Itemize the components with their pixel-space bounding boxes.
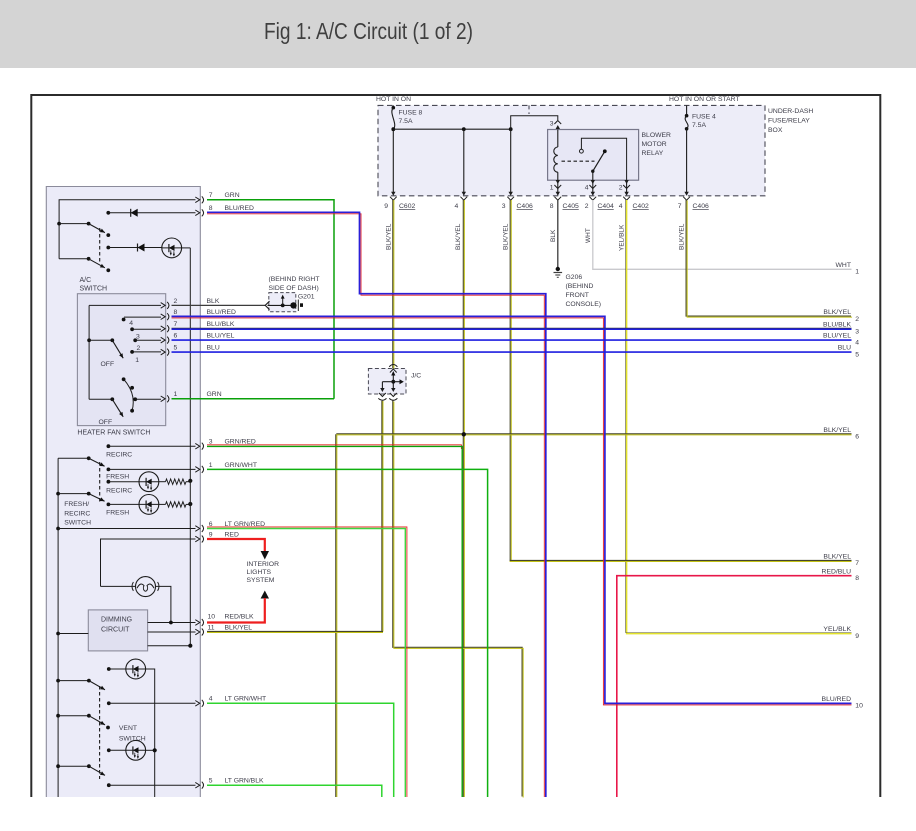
svg-text:7.5A: 7.5A [692,122,706,129]
relay pin 4 stub [592,180,594,192]
wire LED to bus [181,247,190,249]
exit 4 connector [195,700,203,707]
exit 1 connector [195,466,203,473]
wire branch bus from fuse 8 [393,128,510,130]
junction node fuse8 branch [391,127,395,131]
svg-text:FUSE 4: FUSE 4 [692,114,716,121]
wire BLK/YEL from C406 down [509,200,511,560]
left bus vertical [57,458,59,797]
wire branch down to connector 3 C406 [510,129,512,192]
svg-text:BOX: BOX [768,127,783,134]
svg-text:BLU: BLU [838,345,851,352]
svg-text:VENT: VENT [119,725,137,732]
svg-text:4: 4 [129,320,133,327]
wire BLK/YEL 7 from C406 column to right edge [510,559,852,561]
wire BLK/YEL exit11 to J/C branch [207,631,383,633]
wire GRN/WHT to bottom [207,469,488,797]
svg-text:7: 7 [209,192,213,199]
wire fuse4 down to connector 7 C406 [686,129,688,192]
svg-text:RECIRC: RECIRC [64,511,90,518]
A/C switch arm 2 [59,258,89,260]
header bar [0,0,916,68]
blower motor relay box [548,130,639,181]
heater deck1 contact 3 [130,327,134,331]
A/C contact column nodes [106,211,110,215]
svg-text:4: 4 [585,185,589,192]
svg-text:SIDE OF DASH): SIDE OF DASH) [269,285,319,292]
vent gang dashed link [99,686,101,779]
wire BLU pin5 to right edge 5 [172,351,852,353]
svg-text:BLU: BLU [207,345,220,352]
node resistor A to bus [188,479,192,483]
svg-text:SYSTEM: SYSTEM [247,577,275,584]
svg-text:OFF: OFF [99,419,113,426]
svg-text:3: 3 [550,121,554,128]
G201 right bracket [297,300,299,312]
A/C arm2 contact [106,268,110,272]
J/C output connectors [379,388,386,397]
exit 6 connector [195,525,203,532]
svg-text:3: 3 [855,329,859,336]
svg-text:3: 3 [502,203,506,210]
vent LED 2 [126,740,146,760]
dimming circuit box [88,610,147,651]
svg-text:CONSOLE): CONSOLE) [566,301,602,308]
vent LED 1 [126,659,146,679]
svg-text:1: 1 [209,462,213,469]
J/C inline connector arc above [389,365,397,367]
connector 8 C405 [554,192,561,201]
svg-text:BLU/BLK: BLU/BLK [207,321,235,328]
vent LED2 to bus [145,749,154,751]
wire RED from arrow to exit 10 row [207,598,265,623]
heater deck1 contact 1 [130,350,134,354]
svg-text:SWITCH: SWITCH [64,520,91,527]
relay NO contact circle [580,149,584,153]
node A/C left bus [57,222,61,226]
svg-text:6: 6 [855,434,859,441]
heater pin 2 exit [161,302,169,309]
exit 3 connector [195,443,203,450]
svg-text:2: 2 [137,345,141,352]
left control panel box [46,187,200,798]
svg-text:C404: C404 [598,203,614,210]
svg-text:11: 11 [208,624,215,631]
svg-text:BLK: BLK [550,229,557,242]
svg-text:BLU/YEL: BLU/YEL [207,333,235,340]
svg-text:GRN/WHT: GRN/WHT [225,462,257,469]
svg-text:WHT: WHT [836,262,851,269]
wire BLK pin2 to G201 [172,304,266,306]
wire branch up to relay pin 3 [511,116,558,130]
heater fan switch box [77,294,165,426]
svg-text:BLOWER: BLOWER [642,132,672,139]
svg-text:8: 8 [550,203,554,210]
bulb to wire10 branch [156,586,171,622]
svg-text:2: 2 [174,298,178,305]
left bus top corner [58,457,89,459]
svg-text:FUSE 8: FUSE 8 [399,110,423,117]
bus node on left bus at dimming [56,632,60,636]
recirc arm B [87,492,91,496]
wire WHT from C404 to right edge 1 [593,200,852,269]
exit 5 connector [195,782,203,789]
svg-text:4: 4 [855,339,859,346]
svg-text:RECIRC: RECIRC [106,452,132,459]
heater pin 5 exit [161,349,169,356]
svg-text:FRONT: FRONT [566,292,589,299]
fresh contact deck A wire [107,468,111,472]
vent contact 1 wire to exit 4 [107,701,111,705]
wire GRN/RED (green+red pair) to bottom [207,445,461,449]
svg-text:BLK/YEL: BLK/YEL [823,427,851,434]
svg-text:2: 2 [855,316,859,323]
wire BLK to ground G206 [557,200,559,268]
relay arm to pin 4 [592,171,594,180]
svg-text:BLK/YEL: BLK/YEL [385,223,392,250]
svg-text:C402: C402 [633,203,649,210]
J/C branch right arrow [393,381,399,383]
vent arm 3 [56,764,60,768]
svg-text:GRN: GRN [225,192,240,199]
svg-text:5: 5 [855,351,859,358]
heater wiper arm 2 [89,398,112,400]
wire BLK/YEL from C602 to J/C [392,200,394,369]
svg-text:RELAY: RELAY [642,150,664,157]
connector 9 C602 [390,192,397,201]
diode D2 [138,244,145,252]
svg-text:LT GRN/WHT: LT GRN/WHT [225,696,267,703]
fuse 8 feed wire [392,105,394,107]
svg-text:7.5A: 7.5A [399,118,413,125]
wire exit 9 internal [101,539,196,586]
wire to arm1 pivot [59,223,89,225]
svg-text:8: 8 [174,309,178,316]
wire RED to interior lights arrow [207,539,265,552]
heater deck1 contact 4 [122,318,126,322]
relay coil feed [557,130,559,148]
svg-text:9: 9 [384,203,388,210]
heater deck2 wire to pin1 [135,398,161,400]
svg-text:FRESH/: FRESH/ [64,501,89,508]
heater pin 6 exit [161,337,169,344]
relay pin 3 connector [554,121,561,130]
svg-text:BLK/YEL: BLK/YEL [503,223,510,250]
svg-text:1: 1 [855,269,859,276]
wire exit11 internal [148,631,196,633]
wire exit10 internal [148,622,196,624]
svg-text:7: 7 [174,321,178,328]
J/C input arrow [391,371,395,376]
wire LT GRN/WHT to bottom [207,703,394,797]
wire A/C LED feed with diode [108,247,162,249]
svg-text:GRN: GRN [207,391,222,398]
wire BLK/YEL J/C left output down to exit 11 row [381,401,383,632]
svg-text:DIMMING: DIMMING [101,617,132,624]
node dimming bus [188,644,192,648]
svg-text:10: 10 [855,703,863,710]
wire LT GRN/RED (green+red pair) to bottom [207,527,407,797]
svg-text:BLU/BLK: BLU/BLK [823,321,851,328]
wire A/C pin7 internal [59,200,195,259]
heater pin 8 exit [161,313,169,320]
arrow up from interior lights [261,591,269,599]
svg-text:1: 1 [550,185,554,192]
fresh contact deck B wire [107,503,111,507]
heater deck1 contact 2 [133,338,137,342]
svg-text:2: 2 [585,203,589,210]
relay contact wire to pin 2 [581,138,626,180]
connector 3 C406 [507,192,514,201]
svg-text:(BEHIND RIGHT: (BEHIND RIGHT [269,276,320,283]
recirc arm A [87,456,91,460]
svg-text:LT GRN/BLK: LT GRN/BLK [225,778,264,785]
svg-text:1: 1 [174,391,178,398]
wire BLU/RED heater pin8 (blue+red pair) [172,318,852,705]
heater deck2 contact arc [124,379,134,410]
svg-text:HOT IN ON: HOT IN ON [376,96,411,103]
wire BLK/YEL from connector 4 down to bottom [462,200,464,797]
svg-text:C406: C406 [517,203,533,210]
wire dimming to LED bus [148,645,191,647]
wire GRN pin1 joins pin7 riser [172,398,335,400]
svg-text:G201: G201 [298,294,315,301]
svg-text:8: 8 [855,575,859,582]
node bulb branch [169,621,173,625]
svg-text:SWITCH: SWITCH [80,286,108,293]
A/C pin 7 exit connector [195,196,203,203]
wire RED/BLU to right edge 8 [617,576,852,797]
heater internal left bus [88,305,90,399]
vent arm 1 [56,679,60,683]
fuse 4 feed wire [686,105,688,115]
svg-text:BLU/RED: BLU/RED [822,696,852,703]
relay arm node [591,170,594,173]
relay coil to pin 1 [557,172,559,180]
wire branch down to connector 4 [463,129,465,192]
svg-text:5: 5 [209,778,213,785]
relay pin 1 stub [557,180,559,192]
svg-text:10: 10 [208,613,216,620]
svg-text:BLU/YEL: BLU/YEL [823,333,851,340]
svg-text:FRESH: FRESH [106,474,129,481]
wire BLK/YEL 6 horizontal [336,433,851,435]
arrow down to interior lights [261,551,269,560]
svg-text:UNDER-DASH: UNDER-DASH [768,108,813,115]
G201 internal [268,304,294,306]
svg-text:LIGHTS: LIGHTS [247,569,272,576]
svg-text:(BEHIND: (BEHIND [566,283,594,290]
svg-text:BLK/YEL: BLK/YEL [225,624,253,631]
gang dashed link recirc [99,462,101,503]
LED A feed [107,480,111,484]
svg-text:CIRCUIT: CIRCUIT [101,627,130,634]
svg-text:HEATER FAN SWITCH: HEATER FAN SWITCH [77,430,150,437]
wire BLU/BLK pin7 to right edge 3 [172,327,852,329]
heater internal top wire pin2 [89,304,161,306]
svg-text:BLU/RED: BLU/RED [225,205,255,212]
diagram frame border [31,95,880,797]
junction node wire6 x463 [462,432,466,436]
illumination bulb [101,585,136,587]
svg-text:RECIRC: RECIRC [106,488,132,495]
wire GRN from A/C pin7 [207,200,334,399]
wire BLK/YEL J/C right output down then right then down to bottom [393,401,522,797]
svg-text:6: 6 [174,333,178,340]
resistor B [159,503,166,505]
svg-text:4: 4 [209,696,213,703]
wire BLK/YEL from C406 right to edge 2 [686,200,851,317]
relay coil [554,147,558,172]
heater pin 7 exit [161,325,169,332]
wire BLU/YEL pin6 to right edge 4 [172,339,852,341]
svg-text:Fig 1: A/C Circuit (1 of 2): Fig 1: A/C Circuit (1 of 2) [264,18,473,44]
fuse F4 [685,114,689,118]
svg-text:A/C: A/C [80,277,92,284]
svg-text:OFF: OFF [101,361,115,368]
heater wiper arm 1 [87,338,91,342]
svg-text:7: 7 [678,203,682,210]
svg-text:FRESH: FRESH [106,509,129,516]
wire BLK/YEL 6 vertical to bottom [335,434,337,797]
svg-text:BLK/YEL: BLK/YEL [823,309,851,316]
svg-text:MOTOR: MOTOR [642,141,667,148]
vent LED 1 feed [107,667,111,671]
node branch at x462 [462,127,466,131]
bus wire down from A/C LED [189,248,191,481]
exit 10 connector [195,619,203,626]
svg-text:RED/BLU: RED/BLU [822,568,852,575]
connector 2 C404 [589,192,596,201]
node resistor B to bus [188,502,192,506]
svg-text:BLK/YEL: BLK/YEL [823,554,851,561]
LED A [139,472,159,492]
under-dash fuse/relay box (dashed) [378,105,765,195]
svg-text:C602: C602 [399,203,415,210]
ground connector G201 box [269,293,296,312]
heater pin 1 exit [161,395,169,402]
J/C internal wires [392,376,394,390]
A/C gang dashed link [99,228,101,263]
divider dash in fuse box [528,105,530,114]
exit 9 connector [195,536,203,543]
svg-text:9: 9 [209,532,213,539]
svg-text:BLK/YEL: BLK/YEL [455,223,462,250]
svg-text:RED/BLK: RED/BLK [225,613,255,620]
diode D1 [131,209,138,217]
svg-text:C406: C406 [693,203,709,210]
svg-text:YEL/BLK: YEL/BLK [619,224,626,251]
connector 4 C402 [623,192,630,201]
svg-text:YEL/BLK: YEL/BLK [823,626,851,633]
svg-text:8: 8 [209,205,213,212]
vent contact 3 wire to exit 5 [107,783,111,787]
G201 entry chevron [265,301,269,309]
recirc deck B bus node [56,492,60,496]
connector 4 [460,192,467,201]
node branch at x510 [509,127,513,131]
exit 11 connector [195,629,203,636]
svg-text:7: 7 [855,560,859,567]
svg-text:J/C: J/C [411,373,421,380]
fuse F8 [392,106,396,110]
relay arm contact node [603,149,607,153]
recirc contact wire deck A [107,444,111,448]
svg-text:FUSE/RELAY: FUSE/RELAY [768,118,810,125]
relay pin 2 stub [626,180,628,192]
svg-text:BLU/RED: BLU/RED [207,309,237,316]
svg-text:G206: G206 [566,274,583,281]
LED B [139,495,159,515]
wire BLU/RED from A/C pin8 (blue+red pair) [207,214,544,797]
svg-text:5: 5 [174,345,178,352]
A/C switch arm 1 [87,222,91,226]
wire YEL/BLK from C402 down to right edge 9 [627,200,852,634]
wire fuse8 down to connector 9 C602 [392,129,394,192]
resistor A [159,481,166,483]
vent arm 2 [56,714,60,718]
svg-text:INTERIOR: INTERIOR [247,561,280,568]
vent arm2 contact [106,726,110,730]
A/C LED [162,238,182,258]
svg-text:RED: RED [225,532,239,539]
svg-text:4: 4 [455,203,459,210]
relay switch arm [593,151,605,171]
svg-text:HOT IN ON OR START: HOT IN ON OR START [669,96,740,103]
vent LED 2 feed [107,748,111,752]
svg-text:9: 9 [855,633,859,640]
relay dashed actuator link [562,160,595,162]
svg-text:1: 1 [135,357,139,364]
svg-text:BLK/YEL: BLK/YEL [679,223,686,250]
svg-text:C405: C405 [563,203,579,210]
svg-text:BLK: BLK [207,298,220,305]
A/C pin 8 exit connector [195,209,203,216]
connector 7 C406 [683,192,690,201]
ground G206 symbol [556,267,560,271]
junction connector J/C box [368,369,406,395]
bus wire between resistors down to dimming [189,481,191,646]
vent LED bus [145,669,154,797]
svg-text:2: 2 [619,185,623,192]
wire A/C pin8 internal with diode [108,212,195,214]
svg-text:4: 4 [619,203,623,210]
wire exit 6 internal [56,527,60,531]
wire LT GRN/BLK to bottom [207,785,382,797]
svg-text:WHT: WHT [585,228,592,243]
